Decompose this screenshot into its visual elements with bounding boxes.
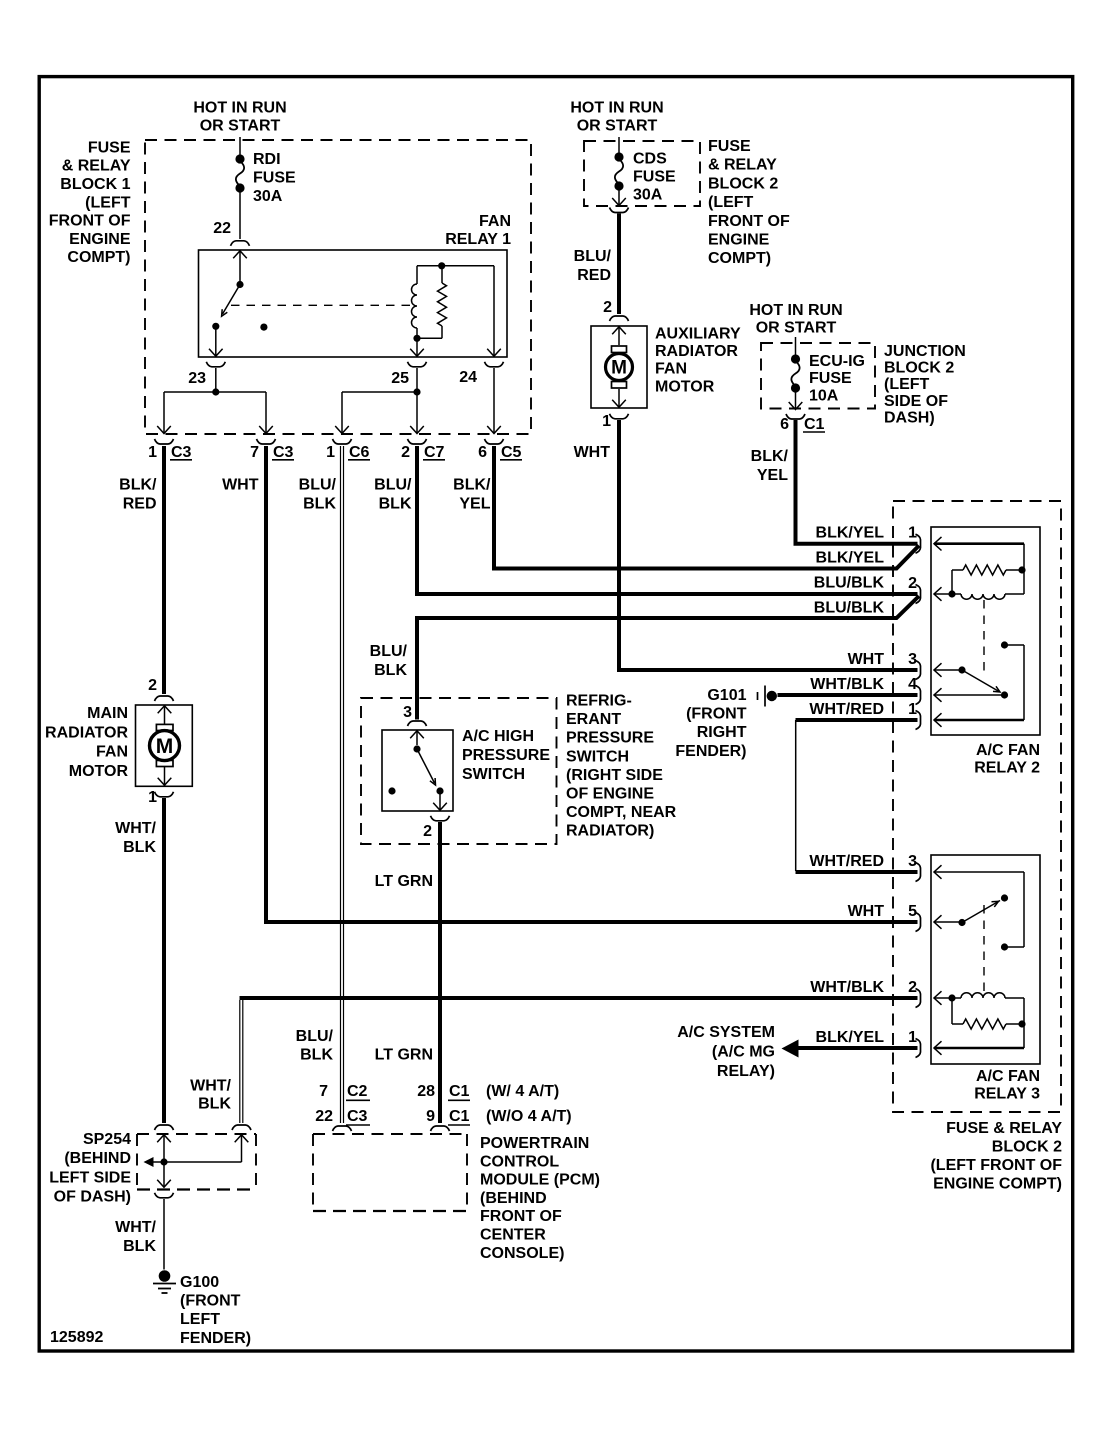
svg-text:1: 1 bbox=[908, 1029, 917, 1046]
pin label 6 (C5) bbox=[478, 444, 487, 461]
svg-text:RED: RED bbox=[577, 267, 611, 284]
wire label BLK/RED bbox=[119, 477, 157, 513]
svg-text:WHT/RED: WHT/RED bbox=[809, 853, 884, 870]
svg-text:WHT/: WHT/ bbox=[190, 1078, 231, 1095]
relay 3 switch contact node bbox=[1001, 943, 1008, 950]
relay 2 switch common node bbox=[958, 666, 965, 673]
pressure switch exit wire bbox=[433, 791, 447, 810]
junction block 2 dashed box bbox=[761, 343, 875, 409]
wire BLU/BLK from 2 C7 to relay 2 pin 2 bbox=[417, 446, 918, 594]
svg-text:BLOCK 1: BLOCK 1 bbox=[60, 176, 130, 193]
relay 3 pin label 1 bbox=[908, 1029, 917, 1046]
svg-text:(W/ 4 A/T): (W/ 4 A/T) bbox=[486, 1083, 559, 1100]
relay 2 resistor left lead bbox=[951, 570, 953, 594]
connector 2 C7 (cup half) bbox=[408, 439, 427, 444]
svg-text:SWITCH: SWITCH bbox=[462, 766, 525, 783]
svg-text:WHT/: WHT/ bbox=[115, 1219, 156, 1236]
svg-text:CENTER: CENTER bbox=[480, 1227, 546, 1244]
connector label C7 bbox=[423, 444, 445, 461]
svg-text:LT GRN: LT GRN bbox=[375, 1047, 433, 1064]
relay 3 switch arm bbox=[962, 901, 1000, 923]
main motor symbol M bbox=[150, 731, 180, 761]
connector label C2 bbox=[346, 1083, 370, 1100]
a/c fan relay 3 box bbox=[931, 855, 1040, 1064]
connector SP254 exit (cup half) bbox=[155, 1193, 174, 1198]
fuse ECU-IG 10A bbox=[791, 354, 800, 392]
wire BLU/BLK from 1 C6 to PCM (double line) bbox=[341, 446, 344, 1123]
pin label 22 (C3) bbox=[315, 1108, 333, 1125]
wire to CDS fuse bbox=[618, 137, 620, 154]
svg-text:YEL: YEL bbox=[459, 496, 490, 513]
wire label WHT/BLK (main motor) bbox=[115, 820, 156, 856]
svg-text:& RELAY: & RELAY bbox=[62, 158, 131, 175]
relay 1 actuator dashed link bbox=[231, 304, 413, 306]
svg-text:WHT: WHT bbox=[222, 477, 259, 494]
wire WHT from 7 C3 to relay 3 pin 5 bbox=[266, 446, 918, 922]
svg-text:22: 22 bbox=[213, 220, 231, 237]
svg-text:FRONT OF: FRONT OF bbox=[708, 213, 790, 230]
svg-text:FRONT OF: FRONT OF bbox=[480, 1208, 562, 1225]
svg-text:ECU-IG: ECU-IG bbox=[809, 353, 865, 370]
wire fuse to connector 22 bbox=[239, 192, 241, 239]
wire WHT from aux motor bbox=[619, 420, 918, 670]
relay 3 pin 2 connector (cup half) bbox=[916, 989, 921, 1008]
svg-text:RADIATOR): RADIATOR) bbox=[566, 823, 654, 840]
wire label LT GRN (pressure switch) bbox=[375, 873, 433, 890]
pin label 2 (C7) bbox=[401, 444, 410, 461]
ground G101 bbox=[758, 686, 778, 707]
svg-text:C3: C3 bbox=[347, 1108, 368, 1125]
relay 3 coil junction bbox=[948, 994, 955, 1001]
connector pin 23 (cup half) bbox=[206, 362, 225, 367]
connector pin 24 (cup half) bbox=[485, 362, 504, 367]
svg-text:SIDE OF: SIDE OF bbox=[884, 393, 948, 410]
connector 6 C5 (cup half) bbox=[485, 439, 504, 444]
svg-text:AUXILIARY: AUXILIARY bbox=[655, 326, 741, 343]
connector pressure switch pin 2 (cup half) bbox=[431, 816, 450, 821]
fuse & relay block 2 dashed box (main) bbox=[893, 501, 1061, 1112]
wire label BLU/BLK (2 C7) bbox=[374, 477, 412, 513]
pressure switch entry arrow bbox=[410, 731, 424, 745]
pressure switch common node bbox=[413, 745, 420, 752]
svg-text:BLK/: BLK/ bbox=[751, 448, 789, 465]
arrow to A/C system bbox=[782, 1040, 799, 1058]
relay 2 pin 2 internal wire bbox=[934, 587, 952, 601]
relay 2 pin 3 connector (cup half) bbox=[916, 661, 921, 680]
svg-text:C3: C3 bbox=[273, 444, 294, 461]
svg-text:RELAY 1: RELAY 1 bbox=[445, 231, 511, 248]
svg-text:MOTOR: MOTOR bbox=[655, 378, 715, 395]
svg-text:OR START: OR START bbox=[577, 118, 658, 135]
connector label C3 (22) bbox=[346, 1108, 370, 1125]
svg-text:(LEFT: (LEFT bbox=[884, 376, 930, 393]
connector 1 C3 (cup half) bbox=[155, 439, 174, 444]
svg-text:WHT/: WHT/ bbox=[115, 820, 156, 837]
relay 3 pin label 5 bbox=[908, 903, 917, 920]
svg-text:& RELAY: & RELAY bbox=[708, 157, 777, 174]
svg-text:CONSOLE): CONSOLE) bbox=[480, 1245, 564, 1262]
label A/C SYSTEM (A/C MG RELAY) bbox=[677, 1024, 775, 1080]
svg-text:WHT: WHT bbox=[848, 651, 885, 668]
a/c fan relay 2 box bbox=[931, 527, 1040, 735]
label FUSE & RELAY BLOCK 2 (bottom right) bbox=[930, 1120, 1062, 1193]
wire to ECU-IG fuse bbox=[795, 337, 797, 356]
wire BLU/BLK from pressure switch to relay 2 pin 2 bbox=[417, 596, 919, 720]
label diagram number 125892 bbox=[50, 1329, 103, 1346]
wire label WHT/BLK (relay 3 pin 2) bbox=[810, 979, 884, 996]
relay 2 actuator dashed link bbox=[983, 600, 985, 676]
svg-text:FUSE: FUSE bbox=[633, 168, 676, 185]
pin label 24 bbox=[459, 369, 477, 386]
wire split to C6/C7 connectors bbox=[335, 392, 424, 434]
wire label BLK/YEL (6 C5) bbox=[453, 477, 491, 513]
svg-text:25: 25 bbox=[391, 370, 409, 387]
relay 2 coil bbox=[952, 594, 1024, 599]
svg-text:BLK/: BLK/ bbox=[453, 477, 491, 494]
connector label C5 bbox=[500, 444, 522, 461]
junction node below pin 23 bbox=[212, 388, 219, 395]
connector label C3 bbox=[272, 444, 294, 461]
relay 2 pin 3 internal wire bbox=[934, 663, 962, 677]
main motor commutator top bbox=[156, 724, 173, 730]
svg-text:COMPT): COMPT) bbox=[67, 249, 130, 266]
connector aux motor pin 2 (umbrella half) bbox=[610, 316, 629, 321]
label (W/ 4 A/T) bbox=[486, 1083, 559, 1100]
svg-text:23: 23 bbox=[188, 370, 206, 387]
svg-text:3: 3 bbox=[908, 853, 917, 870]
svg-text:OR START: OR START bbox=[200, 118, 281, 135]
connector pin 22 (umbrella half) bbox=[231, 241, 250, 246]
label JUNCTION BLOCK 2 (LEFT SIDE OF DASH) bbox=[884, 343, 966, 426]
wire label WHT/RED (relay 3 pin 3) bbox=[809, 853, 884, 870]
label HOT IN RUN OR START (junction block) bbox=[749, 302, 842, 337]
svg-text:C5: C5 bbox=[501, 444, 522, 461]
pin label 2 (aux motor) bbox=[603, 299, 612, 316]
wire pin 25 to junction bbox=[416, 368, 418, 392]
wire label WHT (relay 3 pin 5) bbox=[848, 903, 885, 920]
svg-text:PRESSURE: PRESSURE bbox=[566, 730, 654, 747]
pin label 25 bbox=[391, 370, 409, 387]
connector label C1 (28) bbox=[448, 1083, 470, 1100]
auxiliary radiator fan motor box bbox=[591, 326, 647, 408]
connector label C6 bbox=[348, 444, 370, 461]
connector main motor pin 1 (cup half) bbox=[155, 792, 174, 797]
label MAIN RADIATOR FAN MOTOR bbox=[45, 705, 128, 780]
wire LT GRN from pressure switch to PCM bbox=[438, 822, 442, 1123]
relay 3 coil left lead bbox=[951, 998, 953, 1024]
wire label BLU/BLK (pin 2 lower) bbox=[814, 599, 885, 616]
relay 2 pin 1 bottom internal wire bbox=[934, 713, 1024, 727]
svg-text:WHT/BLK: WHT/BLK bbox=[810, 979, 884, 996]
svg-text:7: 7 bbox=[250, 444, 259, 461]
wire label BLU/BLK (1 C6) bbox=[299, 477, 337, 513]
aux motor commutator bottom bbox=[612, 382, 627, 389]
relay 2 floating contact bbox=[1001, 641, 1024, 720]
wire label WHT/RED (relay 2) bbox=[809, 701, 884, 718]
ECU-IG fuse exit arrow bbox=[789, 392, 803, 410]
svg-text:(RIGHT SIDE: (RIGHT SIDE bbox=[566, 767, 663, 784]
svg-text:G100: G100 bbox=[180, 1274, 219, 1291]
relay 3 pin label 2 bbox=[908, 979, 917, 996]
svg-text:RELAY): RELAY) bbox=[717, 1063, 775, 1080]
svg-text:WHT/BLK: WHT/BLK bbox=[810, 676, 884, 693]
main radiator fan motor box bbox=[136, 705, 193, 786]
label A/C FAN RELAY 2 bbox=[974, 742, 1040, 776]
relay 3 floating contact bbox=[1001, 894, 1008, 901]
svg-text:A/C SYSTEM: A/C SYSTEM bbox=[677, 1024, 775, 1041]
svg-text:FRONT OF: FRONT OF bbox=[49, 213, 131, 230]
pin label 7 (C3) bbox=[250, 444, 259, 461]
svg-text:1: 1 bbox=[148, 789, 157, 806]
svg-text:C1: C1 bbox=[804, 416, 825, 433]
relay 1 bottom junction bbox=[413, 335, 420, 342]
svg-text:HOT IN RUN: HOT IN RUN bbox=[749, 302, 842, 319]
pressure switch arm bbox=[417, 749, 436, 785]
pin label 1 (aux motor) bbox=[602, 413, 611, 430]
wire label WHT (aux motor) bbox=[574, 444, 611, 461]
label A/C HIGH PRESSURE SWITCH bbox=[462, 728, 550, 783]
svg-text:BLU/BLK: BLU/BLK bbox=[814, 575, 885, 592]
label FAN RELAY 1 bbox=[445, 213, 511, 248]
connector label C1 bbox=[803, 416, 825, 433]
svg-text:C1: C1 bbox=[449, 1108, 470, 1125]
relay 3 switch common node bbox=[958, 919, 965, 926]
svg-text:FUSE: FUSE bbox=[708, 138, 751, 155]
svg-text:(A/C MG: (A/C MG bbox=[712, 1043, 775, 1060]
aux motor symbol M bbox=[606, 354, 633, 381]
svg-text:C1: C1 bbox=[449, 1083, 470, 1100]
relay 2 resistor bbox=[952, 565, 1022, 575]
label ECU-IG FUSE 10A bbox=[809, 353, 865, 405]
label RDI FUSE 30A bbox=[253, 151, 296, 205]
SP254 arrow to other circuit bbox=[144, 1157, 165, 1167]
svg-text:BLK: BLK bbox=[123, 1238, 156, 1255]
wire BLU/RED bbox=[617, 214, 621, 315]
junction node below pin 25 bbox=[413, 388, 420, 395]
svg-text:BLK: BLK bbox=[198, 1096, 231, 1113]
svg-text:(BEHIND: (BEHIND bbox=[64, 1150, 131, 1167]
label POWERTRAIN CONTROL MODULE (PCM) (BEHIND FRONT OF CENTER CONSOLE) bbox=[480, 1135, 600, 1262]
svg-text:WHT: WHT bbox=[574, 444, 611, 461]
connector label C1 (9) bbox=[448, 1108, 470, 1125]
svg-text:2: 2 bbox=[908, 575, 917, 592]
aux motor exit arrow bbox=[612, 389, 626, 407]
svg-text:BLK: BLK bbox=[300, 1047, 333, 1064]
svg-text:BLK: BLK bbox=[303, 496, 336, 513]
fan relay 1 box bbox=[199, 250, 508, 357]
svg-text:1: 1 bbox=[908, 525, 917, 542]
relay 1 pin 25 exit wire bbox=[410, 338, 424, 356]
pin label 23 bbox=[188, 370, 206, 387]
relay 1 switch arm bbox=[222, 285, 240, 317]
wire label BLK/YEL (pin 1 upper) bbox=[816, 525, 885, 542]
svg-text:SWITCH: SWITCH bbox=[566, 748, 629, 765]
wire WHT/BLK from SP254 to relay 3 (double line) bbox=[240, 1000, 243, 1123]
relay 1 switch contact node bbox=[212, 323, 219, 330]
svg-text:5: 5 bbox=[908, 903, 917, 920]
relay 2 pin label 1 (y=720) bbox=[908, 701, 917, 718]
relay 1 switch common node bbox=[236, 281, 243, 288]
pressure switch floating contact bbox=[388, 787, 395, 794]
pin label 2 (main motor) bbox=[148, 677, 157, 694]
relay 3 pin 3 internal wire bbox=[934, 865, 1024, 947]
svg-text:28: 28 bbox=[417, 1083, 435, 1100]
SP254 junction node bbox=[160, 1158, 167, 1165]
powertrain control module dashed box bbox=[313, 1134, 467, 1212]
relay 2 pin 4 internal wire bbox=[934, 688, 1005, 702]
svg-text:3: 3 bbox=[908, 651, 917, 668]
svg-text:BLK/YEL: BLK/YEL bbox=[816, 525, 885, 542]
wire BLK/YEL from 6 C5 to relay 2 pin 1 bbox=[494, 446, 919, 569]
svg-text:COMPT, NEAR: COMPT, NEAR bbox=[566, 804, 677, 821]
svg-text:YEL: YEL bbox=[757, 467, 788, 484]
wire label WHT (relay 2 pin 3) bbox=[848, 651, 885, 668]
main motor exit arrow bbox=[158, 767, 172, 786]
svg-text:BLOCK 2: BLOCK 2 bbox=[992, 1139, 1062, 1156]
relay 3 pin 5 internal wire bbox=[934, 915, 962, 929]
fuse CDS 30A bbox=[614, 152, 623, 190]
svg-text:A/C HIGH: A/C HIGH bbox=[462, 728, 534, 745]
svg-text:BLOCK 2: BLOCK 2 bbox=[884, 360, 954, 377]
svg-text:G101: G101 bbox=[707, 687, 746, 704]
relay 2 pin 1 connector (cup half) bbox=[916, 534, 921, 553]
svg-text:FAN: FAN bbox=[479, 213, 511, 230]
svg-text:30A: 30A bbox=[253, 188, 283, 205]
svg-text:RELAY 2: RELAY 2 bbox=[974, 759, 1040, 776]
svg-text:OF DASH): OF DASH) bbox=[54, 1189, 131, 1206]
label HOT IN RUN OR START (block 2) bbox=[570, 99, 663, 134]
relay 2 pin label 2 (y=594) bbox=[908, 575, 917, 592]
svg-text:FUSE: FUSE bbox=[809, 370, 852, 387]
svg-text:125892: 125892 bbox=[50, 1329, 103, 1346]
svg-text:1: 1 bbox=[326, 444, 335, 461]
label FUSE & RELAY BLOCK 1 (LEFT FRONT OF ENGINE COMPT) bbox=[49, 139, 131, 266]
refrigerant pressure switch dashed box bbox=[361, 698, 557, 844]
svg-text:RIGHT: RIGHT bbox=[697, 724, 747, 741]
wire WHT/BLK from main motor to SP254 bbox=[162, 798, 166, 1123]
svg-text:FUSE & RELAY: FUSE & RELAY bbox=[946, 1120, 1062, 1137]
relay 2 pin 4 connector (cup half) bbox=[916, 686, 921, 705]
svg-text:BLU/: BLU/ bbox=[374, 477, 412, 494]
relay 3 actuator dashed link bbox=[983, 905, 985, 992]
svg-text:CONTROL: CONTROL bbox=[480, 1153, 559, 1170]
relay 2 switch arm bbox=[962, 670, 1000, 692]
pin label 1 (main motor) bbox=[148, 789, 157, 806]
svg-text:(W/O 4 A/T): (W/O 4 A/T) bbox=[486, 1108, 572, 1125]
relay 1 resistor bbox=[438, 266, 447, 339]
svg-text:2: 2 bbox=[908, 979, 917, 996]
svg-text:LT GRN: LT GRN bbox=[375, 873, 433, 890]
svg-text:BLU/BLK: BLU/BLK bbox=[814, 599, 885, 616]
wire label WHT/BLK (G100) bbox=[115, 1219, 156, 1255]
svg-text:RELAY 3: RELAY 3 bbox=[974, 1085, 1040, 1102]
wire label BLK/YEL (pin 1 lower) bbox=[816, 549, 885, 566]
svg-text:M: M bbox=[611, 358, 627, 379]
connector PCM pin 28/9 (umbrella half) bbox=[431, 1126, 450, 1131]
svg-text:HOT IN RUN: HOT IN RUN bbox=[193, 99, 286, 116]
svg-text:BLK/YEL: BLK/YEL bbox=[816, 549, 885, 566]
wire label WHT/BLK (relay 2 pin 4) bbox=[810, 676, 884, 693]
aux motor entry arrow bbox=[612, 327, 626, 345]
relay 3 pin 1 connector (cup half) bbox=[916, 1039, 921, 1058]
svg-text:(FRONT: (FRONT bbox=[686, 706, 747, 723]
wire BLK/YEL from ECU-IG to relay 2 pin 1 bbox=[796, 420, 918, 544]
svg-text:C3: C3 bbox=[171, 444, 192, 461]
svg-text:A/C FAN: A/C FAN bbox=[976, 1068, 1040, 1085]
svg-text:ENGINE: ENGINE bbox=[708, 232, 770, 249]
relay 2 coil junction bbox=[948, 590, 955, 597]
svg-text:PRESSURE: PRESSURE bbox=[462, 747, 550, 764]
label AUXILIARY RADIATOR FAN MOTOR bbox=[655, 326, 741, 396]
main motor entry arrow bbox=[158, 706, 172, 725]
wire split to C3 connectors bbox=[157, 392, 273, 434]
relay 1 pin 23 exit wire bbox=[209, 326, 223, 356]
pin label 9 (C1) bbox=[426, 1108, 435, 1125]
pin label 1 (C3) bbox=[148, 444, 157, 461]
pin label 7 (C2) bbox=[319, 1083, 328, 1100]
relay 2 pin label 4 (y=695) bbox=[908, 676, 917, 693]
wire label BLU/BLK (PCM) bbox=[296, 1028, 334, 1064]
wire WHT/BLK from SP254 to G100 bbox=[163, 1199, 165, 1270]
fuse & relay block 2 dashed box (top) bbox=[584, 141, 700, 206]
svg-text:MAIN: MAIN bbox=[87, 705, 128, 722]
svg-text:FAN: FAN bbox=[655, 361, 687, 378]
relay 2 switch contact node bbox=[1001, 691, 1008, 698]
svg-text:10A: 10A bbox=[809, 387, 839, 404]
label A/C FAN RELAY 3 bbox=[974, 1068, 1040, 1102]
relay 1 coil bbox=[412, 266, 418, 339]
relay 1 floating contact bbox=[260, 324, 267, 331]
pin label 6 (C1) bbox=[780, 416, 789, 433]
relay 3 right bus bbox=[1023, 998, 1025, 1048]
svg-text:FENDER): FENDER) bbox=[180, 1330, 251, 1347]
wire pin 23 to junction bbox=[215, 368, 217, 392]
relay 1 top junction bbox=[438, 262, 445, 269]
relay 3 pin 3 connector (cup half) bbox=[916, 863, 921, 882]
svg-text:WHT: WHT bbox=[848, 903, 885, 920]
pin label 1 (C6) bbox=[326, 444, 335, 461]
svg-text:ENGINE COMPT): ENGINE COMPT) bbox=[933, 1176, 1062, 1193]
relay 2 resistor junction bbox=[1018, 566, 1025, 573]
wire label BLU/RED bbox=[574, 248, 612, 284]
label (W/O 4 A/T) bbox=[486, 1108, 572, 1125]
svg-text:M: M bbox=[156, 735, 174, 758]
svg-text:1: 1 bbox=[148, 444, 157, 461]
SP254 left entry arrow bbox=[157, 1135, 171, 1162]
wire label BLU/BLK (pin 2 upper) bbox=[814, 575, 885, 592]
connector 6 C1 (cup half) bbox=[786, 414, 805, 419]
wire WHT/BLK to relay 3 pin 2 bbox=[240, 996, 918, 1000]
wire from HOT IN RUN to RDI fuse bbox=[239, 137, 241, 156]
label G101 (FRONT RIGHT FENDER) bbox=[675, 687, 746, 760]
wire pin 24 to C5 connector bbox=[487, 368, 501, 434]
wire label LT GRN (PCM) bbox=[375, 1047, 433, 1064]
svg-text:(LEFT FRONT OF: (LEFT FRONT OF bbox=[930, 1157, 1062, 1174]
relay 3 resistor junction bbox=[1018, 1020, 1025, 1027]
connector main motor pin 2 (umbrella half) bbox=[155, 696, 174, 701]
svg-text:OF ENGINE: OF ENGINE bbox=[566, 786, 654, 803]
svg-text:7: 7 bbox=[319, 1083, 328, 1100]
fuse & relay block 1 dashed box bbox=[145, 140, 531, 434]
SP254 exit arrow bbox=[157, 1162, 171, 1187]
svg-text:BLK: BLK bbox=[374, 662, 407, 679]
svg-text:C7: C7 bbox=[424, 444, 445, 461]
svg-text:ERANT: ERANT bbox=[566, 711, 621, 728]
svg-text:(FRONT: (FRONT bbox=[180, 1293, 241, 1310]
connector PCM pin 7/22 (umbrella half) bbox=[333, 1126, 352, 1131]
wire label BLU/BLK (pressure switch) bbox=[370, 643, 408, 679]
main motor commutator bottom bbox=[156, 760, 173, 766]
